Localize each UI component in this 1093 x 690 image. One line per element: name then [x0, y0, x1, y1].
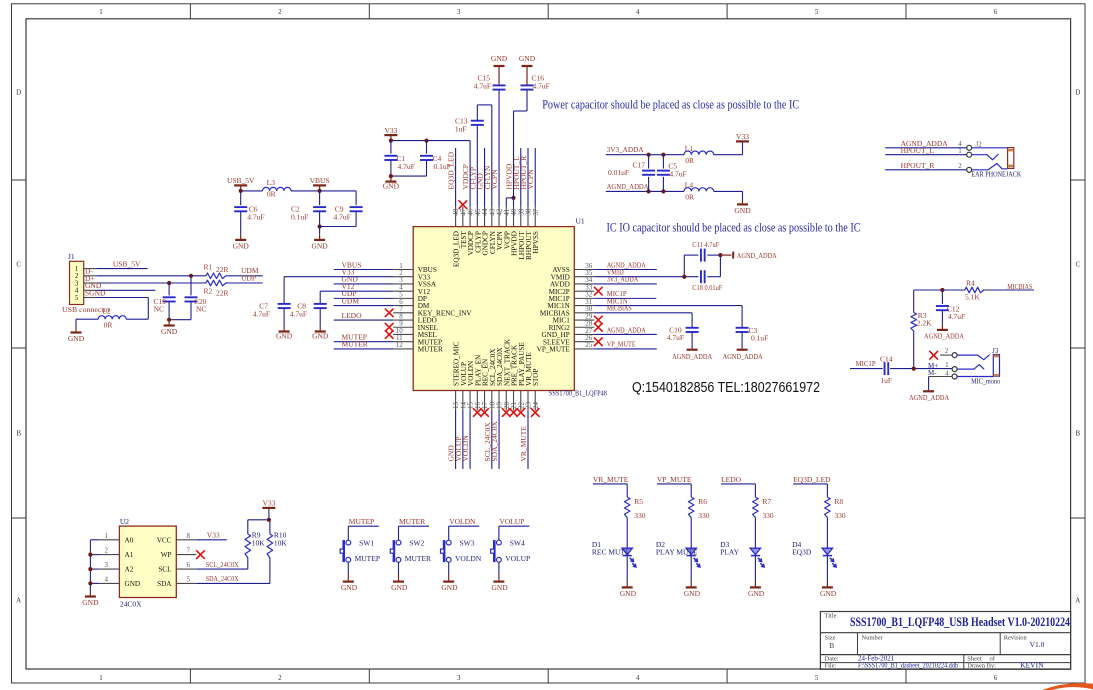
svg-text:MUTEP: MUTEP: [349, 517, 374, 526]
svg-text:B: B: [829, 641, 834, 650]
svg-text:File:: File:: [825, 663, 837, 670]
svg-text:1uF: 1uF: [455, 125, 467, 134]
svg-text:GND: GND: [820, 589, 837, 598]
svg-text:IC IO capacitor should be plac: IC IO capacitor should be placed as clos…: [607, 220, 861, 235]
svg-text:10K: 10K: [252, 538, 265, 547]
svg-text:GND: GND: [748, 589, 765, 598]
svg-text:V33: V33: [342, 268, 355, 277]
svg-text:V33: V33: [207, 531, 220, 540]
svg-text:USB_5V: USB_5V: [227, 176, 255, 185]
svg-text:C11 4.7uF: C11 4.7uF: [692, 240, 719, 249]
svg-text:L4: L4: [685, 181, 694, 190]
svg-text:A: A: [16, 597, 21, 605]
svg-text:VOLUP: VOLUP: [499, 517, 524, 526]
svg-text:SW1: SW1: [359, 539, 374, 548]
svg-text:VMID: VMID: [607, 268, 624, 277]
svg-text:GND: GND: [161, 327, 178, 336]
svg-text:GND: GND: [82, 598, 99, 607]
svg-text:1: 1: [105, 532, 109, 540]
svg-text:A1: A1: [125, 551, 134, 559]
svg-text:V1.0: V1.0: [1030, 640, 1045, 649]
svg-text:of: of: [990, 655, 996, 662]
svg-text:V33: V33: [736, 132, 749, 141]
svg-text:R6: R6: [698, 497, 707, 506]
svg-text:MUTER: MUTER: [342, 340, 368, 349]
svg-text:8: 8: [187, 532, 191, 540]
svg-text:PLAY MUTE: PLAY MUTE: [656, 547, 698, 556]
svg-text:LEDO: LEDO: [721, 475, 742, 484]
svg-text:AGND_ADDA: AGND_ADDA: [607, 182, 650, 191]
svg-text:0.01uF: 0.01uF: [608, 168, 629, 177]
svg-text:V33: V33: [262, 499, 275, 508]
svg-text:GND: GND: [734, 206, 751, 215]
svg-text:5: 5: [75, 295, 79, 302]
svg-text:2: 2: [105, 547, 109, 555]
svg-text:37: 37: [532, 208, 540, 216]
svg-text:4: 4: [105, 575, 109, 583]
svg-text:VR_MUTE: VR_MUTE: [519, 426, 528, 462]
svg-text:HPOUT_R: HPOUT_R: [901, 161, 935, 170]
svg-text:GND: GND: [491, 583, 508, 592]
svg-text:SW3: SW3: [460, 539, 475, 548]
svg-text:4.7uF: 4.7uF: [669, 169, 686, 178]
svg-text:M-: M-: [928, 369, 937, 377]
svg-text:3: 3: [457, 8, 461, 16]
svg-text:SCL: SCL: [158, 566, 171, 574]
svg-text:GND: GND: [125, 580, 141, 588]
svg-text:4.7uF: 4.7uF: [398, 162, 415, 171]
svg-text:4.7uF: 4.7uF: [474, 81, 491, 90]
svg-text:4: 4: [636, 674, 640, 682]
svg-text:EQ3D: EQ3D: [792, 547, 812, 556]
svg-text:4.7uF: 4.7uF: [334, 212, 351, 221]
svg-text:A: A: [1075, 597, 1080, 605]
svg-text:5.1K: 5.1K: [965, 293, 980, 302]
svg-text:4: 4: [636, 8, 640, 16]
svg-text:3: 3: [75, 280, 79, 287]
svg-text:6: 6: [994, 8, 998, 16]
svg-text:2: 2: [958, 162, 962, 170]
svg-text:D: D: [1075, 89, 1080, 97]
svg-text:AGND_ADDA: AGND_ADDA: [737, 251, 777, 260]
svg-text:VCPN: VCPN: [526, 169, 535, 190]
svg-text:25: 25: [585, 341, 593, 349]
svg-text:KEVIN: KEVIN: [1020, 661, 1044, 670]
svg-text:Revision: Revision: [1004, 634, 1028, 641]
svg-text:GND: GND: [233, 241, 250, 250]
svg-text:MUTER: MUTER: [399, 517, 425, 526]
svg-text:1: 1: [75, 266, 78, 273]
svg-text:22R: 22R: [216, 288, 229, 297]
svg-text:GND: GND: [311, 241, 328, 250]
svg-text:VOLDN: VOLDN: [455, 554, 482, 563]
svg-text:Power capacitor should be plac: Power capacitor should be placed as clos…: [542, 96, 799, 111]
svg-text:4.7uF: 4.7uF: [667, 333, 684, 342]
svg-text:Date:: Date:: [825, 655, 839, 662]
svg-text:EQ3D_LED: EQ3D_LED: [793, 475, 831, 484]
svg-text:U1: U1: [576, 217, 585, 226]
svg-text:6: 6: [187, 561, 191, 569]
svg-text:GND: GND: [383, 182, 400, 191]
svg-text:0.1uF: 0.1uF: [751, 333, 768, 342]
svg-text:330: 330: [762, 511, 774, 520]
svg-text:UDM: UDM: [342, 296, 360, 305]
svg-text:Drawn By:: Drawn By:: [967, 663, 996, 670]
svg-text:24: 24: [532, 402, 540, 410]
svg-text:1: 1: [945, 361, 949, 369]
svg-text:10K: 10K: [274, 538, 288, 547]
svg-text:0.1uF: 0.1uF: [291, 212, 308, 221]
svg-text:MIC_mono: MIC_mono: [971, 376, 1000, 385]
svg-text:GND: GND: [441, 583, 458, 592]
svg-text:SW4: SW4: [510, 539, 525, 548]
svg-text:STOP: STOP: [532, 369, 540, 386]
svg-text:USB_5V: USB_5V: [113, 259, 141, 268]
svg-text:5: 5: [815, 8, 819, 16]
svg-text:330: 330: [698, 511, 710, 520]
svg-text:SW2: SW2: [409, 539, 424, 548]
svg-text:EAR PHONEJACK: EAR PHONEJACK: [971, 170, 1021, 179]
svg-text:22R: 22R: [216, 265, 229, 274]
svg-text:1: 1: [99, 8, 103, 16]
svg-text:VP_MUTE: VP_MUTE: [607, 340, 636, 349]
svg-text:24C0X: 24C0X: [120, 599, 142, 608]
svg-text:AGND_ADDA: AGND_ADDA: [723, 352, 763, 361]
svg-text:330: 330: [834, 511, 846, 520]
svg-text:MIC1P: MIC1P: [856, 359, 876, 368]
svg-text:SDA_24C0X: SDA_24C0X: [206, 574, 239, 583]
svg-text:PLAY: PLAY: [720, 547, 739, 556]
svg-text:Q:1540182856 TEL:18027661972: Q:1540182856 TEL:18027661972: [632, 380, 820, 396]
svg-text:GND: GND: [341, 583, 358, 592]
svg-text:A2: A2: [125, 566, 134, 574]
svg-text:VP_MUTE: VP_MUTE: [537, 346, 571, 354]
svg-text:Number: Number: [862, 634, 884, 641]
svg-text:NC: NC: [154, 305, 164, 314]
svg-text:MUTER: MUTER: [405, 554, 431, 563]
svg-text:5: 5: [187, 575, 191, 583]
svg-text:SDA_24C0X: SDA_24C0X: [490, 420, 499, 461]
svg-text:2: 2: [278, 674, 282, 682]
svg-text:C17: C17: [632, 160, 645, 169]
svg-text:V12: V12: [342, 282, 355, 291]
svg-text:R4: R4: [966, 279, 975, 288]
svg-text:R2: R2: [204, 287, 213, 296]
svg-text:AGND_ADDA: AGND_ADDA: [607, 325, 646, 334]
svg-text:LEDO: LEDO: [342, 311, 363, 320]
svg-text:GND: GND: [491, 54, 508, 63]
svg-text:4.7uF: 4.7uF: [247, 213, 264, 222]
svg-text:NC: NC: [196, 305, 206, 314]
svg-text:HPVSS: HPVSS: [532, 231, 540, 253]
svg-text:3: 3: [105, 561, 109, 569]
svg-text:SGND: SGND: [85, 288, 106, 297]
svg-text:MICBIAS: MICBIAS: [1007, 282, 1032, 291]
svg-text:4: 4: [75, 288, 79, 295]
svg-text:GND: GND: [276, 332, 293, 341]
svg-text:1uF: 1uF: [880, 376, 892, 385]
svg-text:2: 2: [945, 347, 949, 355]
svg-text:WP: WP: [161, 551, 172, 559]
svg-text:R1: R1: [204, 262, 213, 271]
svg-text:C18 0.01uF: C18 0.01uF: [692, 283, 722, 292]
svg-text:3: 3: [457, 674, 461, 682]
svg-text:SSS1700_B1_LQFP48_USB Headset: SSS1700_B1_LQFP48_USB Headset V1.0-20210…: [850, 615, 1071, 629]
svg-text:R5: R5: [634, 497, 643, 506]
svg-text:VCC: VCC: [157, 536, 172, 544]
svg-text:VP_MUTE: VP_MUTE: [657, 475, 692, 484]
svg-text:Sheet: Sheet: [967, 655, 982, 662]
svg-text:5: 5: [815, 674, 819, 682]
svg-text:J2: J2: [976, 140, 983, 148]
svg-text:AGND_ADDA: AGND_ADDA: [909, 393, 949, 402]
svg-text:4.7uF: 4.7uF: [948, 312, 965, 321]
svg-text:REC MUTE: REC MUTE: [592, 547, 630, 556]
svg-text:VOLDN: VOLDN: [461, 435, 470, 462]
svg-text:R7: R7: [762, 497, 771, 506]
svg-text:SSS1700_B1_LQFP48: SSS1700_B1_LQFP48: [549, 389, 607, 397]
svg-text:GND: GND: [519, 54, 536, 63]
svg-text:0R: 0R: [104, 321, 113, 330]
svg-text:1: 1: [99, 674, 103, 682]
svg-text:2: 2: [75, 273, 79, 280]
svg-text:L3: L3: [267, 178, 276, 187]
svg-text:SDA: SDA: [157, 580, 172, 588]
svg-text:VOLUP: VOLUP: [505, 554, 530, 563]
svg-text:Title: Title: [825, 613, 837, 620]
svg-text:V33: V33: [384, 126, 397, 135]
svg-text:L2: L2: [102, 307, 111, 316]
svg-text:C14: C14: [880, 355, 893, 364]
svg-text:U2: U2: [120, 517, 129, 526]
svg-text:C: C: [1075, 261, 1080, 269]
svg-text:2.2K: 2.2K: [917, 319, 932, 328]
svg-text:0R: 0R: [685, 193, 694, 202]
svg-text:GND: GND: [391, 583, 408, 592]
svg-text:12: 12: [396, 341, 404, 349]
svg-text:0R: 0R: [685, 156, 694, 165]
svg-text:GND: GND: [312, 332, 329, 341]
svg-text:7: 7: [187, 547, 191, 555]
svg-text:MUTEP: MUTEP: [355, 554, 380, 563]
svg-text:VCPN: VCPN: [490, 169, 499, 190]
svg-text:AGND_ADDA: AGND_ADDA: [672, 352, 712, 361]
svg-text:330: 330: [634, 511, 646, 520]
svg-text:HPOUT_L: HPOUT_L: [901, 146, 935, 155]
svg-text:0.1uF: 0.1uF: [434, 162, 451, 171]
svg-text:J1: J1: [68, 252, 75, 261]
svg-text:VR_MUTE: VR_MUTE: [593, 475, 629, 484]
svg-text:6: 6: [994, 674, 998, 682]
svg-text:2: 2: [278, 8, 282, 16]
svg-text:B: B: [16, 430, 21, 438]
svg-text:F:\SSS1700_B1_dasheet_20210224: F:\SSS1700_B1_dasheet_20210224.ddb: [858, 662, 958, 670]
svg-text:D: D: [16, 89, 21, 97]
svg-text:A0: A0: [125, 536, 134, 544]
svg-text:MUTER: MUTER: [418, 346, 443, 354]
svg-text:R8: R8: [834, 497, 843, 506]
svg-text:C: C: [16, 261, 21, 269]
svg-text:GND: GND: [68, 334, 85, 343]
svg-text:B: B: [1075, 430, 1080, 438]
svg-text:4.7uF: 4.7uF: [253, 309, 270, 318]
svg-text:3V3_ADDA: 3V3_ADDA: [607, 145, 645, 154]
svg-text:0R: 0R: [267, 190, 276, 199]
svg-text:J3: J3: [992, 347, 999, 355]
svg-text:4.7uF: 4.7uF: [290, 309, 307, 318]
svg-text:SCL_24C0X: SCL_24C0X: [206, 560, 239, 569]
svg-text:GND: GND: [620, 589, 637, 598]
svg-text:VOLDN: VOLDN: [449, 517, 476, 526]
svg-text:VBUS: VBUS: [310, 176, 330, 185]
svg-text:AGND_ADDA: AGND_ADDA: [924, 331, 964, 340]
svg-text:4.7uF: 4.7uF: [533, 81, 550, 90]
svg-text:MICBIAS: MICBIAS: [607, 304, 632, 313]
svg-text:UDP: UDP: [241, 273, 256, 282]
svg-text:1: 1: [958, 147, 962, 155]
svg-text:GND: GND: [684, 589, 701, 598]
svg-text:L1: L1: [685, 144, 694, 153]
